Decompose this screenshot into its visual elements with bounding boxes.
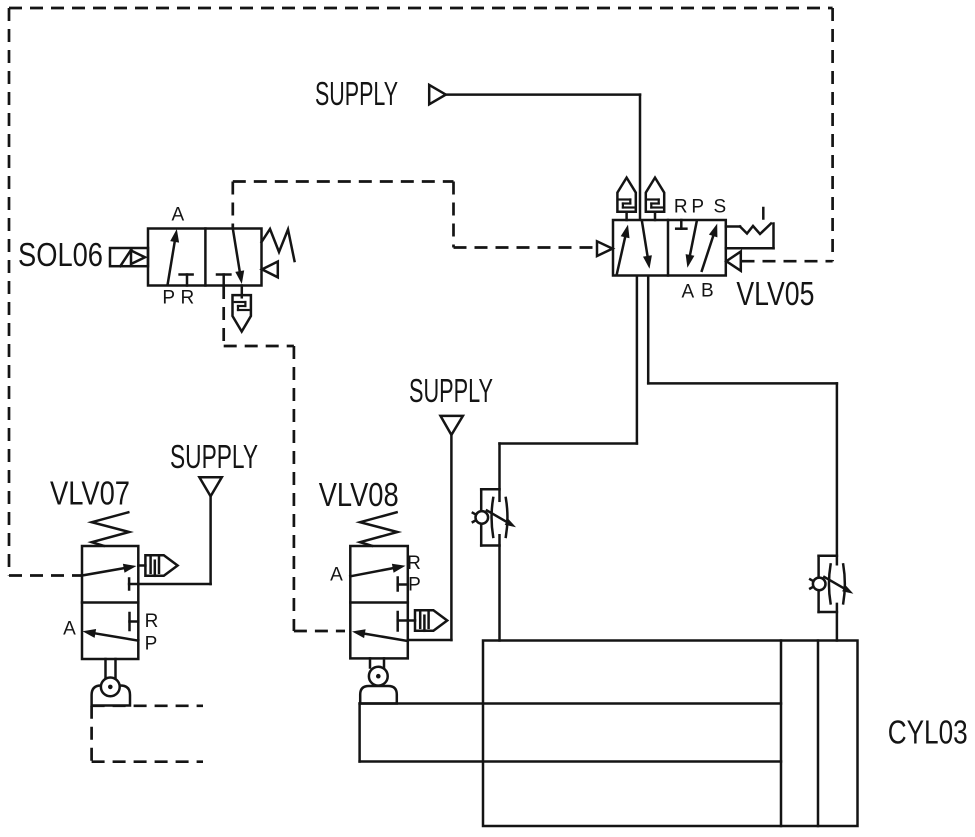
svg-text:P: P <box>408 575 421 596</box>
exhaust silencer under SOL06 <box>233 286 251 332</box>
pilot triangle SOL06 right <box>262 262 278 278</box>
wire VLV05 port B to flow control FC2 <box>648 276 837 564</box>
svg-text:VLV07: VLV07 <box>50 475 130 512</box>
wire VLV05 port A to flow control FC1 <box>500 276 637 501</box>
SOL06 blocked port R <box>180 275 193 286</box>
SOL06 blocked port right box <box>217 275 230 286</box>
VLV08 blocked port lower <box>398 612 415 631</box>
VLV05 left box passage down <box>642 222 652 269</box>
flow control valve FC1 with check bypass <box>473 489 516 545</box>
SOL06 passage to exhaust <box>233 229 244 285</box>
VLV05 indicator I <box>762 208 765 219</box>
wire pilot dashed into VLV05 right pilot <box>742 260 833 263</box>
supply source for VLV07 <box>129 477 222 584</box>
VLV05 left box passage up <box>617 225 630 274</box>
spring return SOL06 <box>262 229 295 261</box>
svg-text:SUPPLY: SUPPLY <box>170 438 258 475</box>
SOL06 passage P to A <box>168 229 179 284</box>
VLV07 exhaust muffler <box>138 555 177 576</box>
solenoid actuator SOL06 <box>110 248 148 266</box>
VLV05 muffler 1 <box>617 178 635 220</box>
wire pilot dashed right <box>831 8 834 261</box>
port labels R P S VLV05 <box>674 197 726 218</box>
VLV08 exhaust muffler <box>415 610 447 631</box>
svg-text:VLV05: VLV05 <box>736 275 814 312</box>
valve VLV07 body <box>82 546 138 659</box>
svg-text:P: P <box>145 634 158 655</box>
svg-text:R: R <box>407 553 421 574</box>
svg-text:P: P <box>162 288 175 309</box>
svg-text:A: A <box>681 282 694 303</box>
svg-text:SUPPLY: SUPPLY <box>409 372 493 409</box>
cam block VLV08 on piston rod <box>360 686 397 704</box>
VLV05 left pilot triangle <box>597 241 613 256</box>
wire FC2 to cylinder rear port <box>836 604 839 641</box>
svg-text:A: A <box>63 619 76 640</box>
svg-text:R: R <box>145 611 159 632</box>
piston CYL03 <box>781 641 818 827</box>
VLV08 passage A to R <box>350 564 405 577</box>
port labels VLV07 <box>63 611 158 655</box>
VLV05 passage P to A <box>686 222 697 268</box>
svg-text:VLV08: VLV08 <box>319 476 399 513</box>
valve SOL06 body <box>148 229 262 286</box>
valve VLV08 body <box>350 546 408 658</box>
VLV07 passage A to exhaust <box>82 564 137 576</box>
spring VLV08 <box>360 512 397 546</box>
svg-text:SOL06: SOL06 <box>18 236 103 273</box>
flow control valve FC2 with check bypass <box>810 556 853 612</box>
port labels A B VLV05 <box>681 281 713 303</box>
VLV07 blocked port P <box>128 579 131 590</box>
valve VLV05 body <box>613 220 726 276</box>
svg-text:R: R <box>181 288 195 309</box>
svg-text:A: A <box>172 205 185 226</box>
wire FC1 to cylinder front port <box>498 535 501 640</box>
VLV07 blocked port R <box>130 613 139 630</box>
VLV05 muffler 2 <box>646 178 664 220</box>
svg-text:CYL03: CYL03 <box>888 714 968 751</box>
piston rod CYL03 <box>360 704 781 762</box>
svg-text:R: R <box>674 197 688 218</box>
VLV05 blocked port R <box>676 220 686 229</box>
VLV07 passage P to A lower box <box>83 629 139 641</box>
svg-text:A: A <box>330 565 343 586</box>
wire pilot dashed into VLV07 <box>9 574 81 577</box>
cam block VLV07 <box>92 686 130 706</box>
svg-text:SUPPLY: SUPPLY <box>315 75 398 112</box>
supply source top (to VLV05) <box>429 85 640 219</box>
supply source for VLV08 <box>408 416 463 640</box>
svg-text:B: B <box>701 281 714 302</box>
VLV05 right pilot triangle <box>726 252 741 271</box>
VLV08 blocked port P <box>398 578 408 591</box>
VLV05 passage B to S <box>702 224 718 271</box>
VLV05 spring detent right <box>726 224 774 249</box>
wire pilot dashed SOL06 to VLV08 <box>224 286 345 631</box>
roller actuator VLV07 <box>106 659 116 679</box>
roller wheel VLV07 <box>101 678 120 697</box>
svg-text:S: S <box>713 197 726 218</box>
port labels VLV08 <box>330 553 421 596</box>
spring VLV07 <box>92 512 129 546</box>
cylinder CYL03 barrel <box>483 641 858 827</box>
svg-text:P: P <box>691 197 704 218</box>
wire pilot dashed top <box>9 7 833 10</box>
VLV08 passage P to A lower box <box>352 629 408 641</box>
roller actuator VLV08 <box>370 658 384 667</box>
wire pilot dashed left <box>8 8 11 576</box>
wire pilot dashed SOL06 to VLV05 <box>233 182 597 248</box>
roller wheel VLV08 <box>369 667 388 686</box>
phantom cam position dashed VLV07 <box>92 706 203 762</box>
